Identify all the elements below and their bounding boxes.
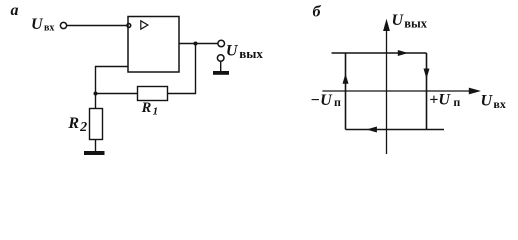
svg-text:+U: +U — [429, 92, 451, 109]
svg-text:вх: вх — [44, 22, 54, 33]
ground (output common) — [213, 71, 229, 75]
svg-text:a: a — [11, 2, 19, 19]
inverting input bubble — [127, 24, 131, 28]
arrow left (bottom side) — [367, 127, 377, 133]
svg-text:2: 2 — [79, 120, 87, 135]
ground (under R2) — [84, 151, 105, 155]
svg-text:вых: вых — [239, 46, 263, 61]
resistor R2 — [90, 109, 103, 140]
svg-text:п: п — [453, 95, 460, 109]
junction: output node — [194, 42, 198, 46]
arrow right (top side) — [398, 50, 408, 56]
wire: common terminal to ground — [220, 61, 222, 71]
svg-text:R: R — [67, 115, 79, 132]
axis U_vyh (vertical axis) — [386, 28, 388, 154]
svg-text:U: U — [31, 16, 44, 33]
wire: input terminal to inverting input — [67, 25, 127, 27]
input terminal (U_vx) — [60, 22, 66, 28]
wire: node A to R1 — [96, 93, 138, 95]
wire: node A to non-inverting input — [96, 66, 129, 68]
common output terminal — [217, 55, 224, 62]
svg-text:п: п — [334, 95, 341, 109]
hysteresis loop top side — [332, 52, 427, 54]
svg-text:вх: вх — [493, 97, 505, 111]
wire: op-amp output — [179, 43, 218, 45]
junction node A — [94, 92, 98, 96]
wire: R1 to feedback corner to output node — [168, 44, 196, 94]
svg-text:R: R — [141, 100, 152, 116]
arrow up (left side) — [343, 74, 349, 84]
arrowhead of vertical axis — [383, 19, 390, 31]
svg-text:−U: −U — [310, 92, 333, 109]
svg-text:вых: вых — [404, 17, 428, 31]
op-amp amplifier triangle symbol — [141, 21, 148, 29]
axis U_vx (horizontal axis) — [322, 90, 472, 92]
svg-text:U: U — [392, 12, 405, 29]
svg-text:б: б — [313, 4, 322, 21]
svg-text:U: U — [481, 92, 494, 109]
hysteresis loop right side — [426, 53, 428, 130]
resistor R1 — [138, 87, 168, 101]
svg-text:U: U — [226, 42, 239, 59]
op-amp U1 body — [128, 17, 179, 73]
output terminal (U_vyh) — [218, 40, 225, 47]
svg-text:1: 1 — [153, 105, 159, 117]
arrowhead of horizontal axis — [469, 88, 481, 95]
wire: node A vertical (to R2) — [95, 66, 97, 109]
wire: R2 to ground — [95, 140, 97, 152]
arrow down (right side) — [424, 69, 430, 79]
hysteresis loop bottom side — [346, 129, 445, 131]
hysteresis loop left side — [345, 53, 347, 130]
